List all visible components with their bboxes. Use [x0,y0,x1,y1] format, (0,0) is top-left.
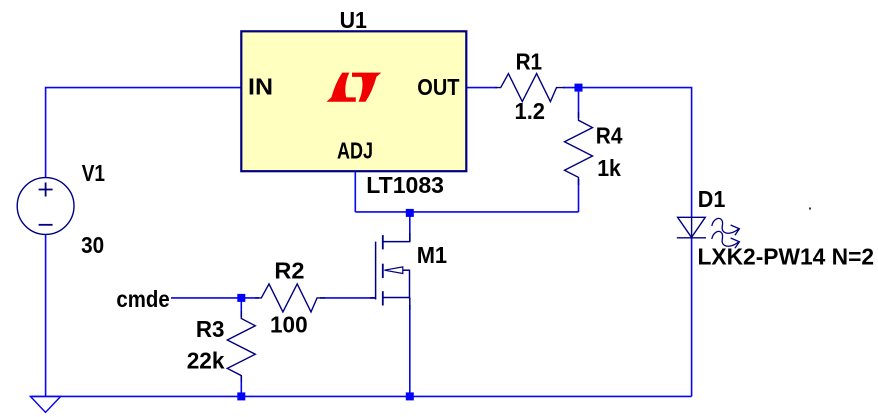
resistor R2 [255,284,325,312]
svg-text:22k: 22k [187,348,226,374]
resistor R3 [227,311,255,382]
svg-text:V1: V1 [82,160,105,186]
wire OUT to R1 [466,87,497,89]
value 30 [81,232,104,258]
node junction R1/R4 [575,84,583,92]
value 100 [270,312,308,338]
label M1 [417,242,447,268]
wire ADJ horizontal [355,211,578,213]
ground [30,396,60,412]
transistor M1 [370,233,411,310]
wire R1 to top-right corner and down to D1 [563,88,692,218]
value label LT1083 [366,172,444,198]
svg-text:LT1083: LT1083 [366,172,444,198]
svg-text:M1: M1 [417,242,447,268]
svg-text:100: 100 [270,312,308,338]
wire junction to R2 [241,297,259,299]
label R2 [274,257,304,283]
wire V1 bottom to ground rail [45,234,47,396]
pin label ADJ [337,138,373,164]
label R3 [196,316,225,342]
label R4 [596,123,623,149]
wire R3 bottom lead [240,376,242,396]
wire D1 cathode to ground rail [691,238,693,397]
voltage source V1 [17,178,74,235]
svg-text:30: 30 [81,232,104,258]
value LXK2-PW14 N=2 [698,244,875,270]
wire M1 drain to junction [409,213,411,242]
svg-text:R1: R1 [516,48,543,74]
wire R4 bottom lead to ADJ line [578,179,580,212]
wire cmde to junction [171,297,241,299]
stray dot [809,208,811,210]
node junction M1 source/ground rail [406,392,414,400]
resistor R1 [495,74,564,102]
svg-text:U1: U1 [340,7,367,33]
wire M1 source to ground rail [409,305,411,396]
value 1.2 [515,98,546,124]
LT logo [327,73,382,102]
svg-text:R4: R4 [596,123,623,149]
wire R4 top lead [578,88,580,118]
value 22k [187,348,226,374]
label D1 [698,186,726,212]
resistor R4 [565,112,593,185]
wire ground rail [30,395,691,397]
svg-text:R3: R3 [196,316,225,342]
node junction ADJ/M1 [406,209,414,217]
pin label IN [248,74,273,100]
value 1k [597,155,622,181]
svg-text:1k: 1k [597,155,622,181]
svg-text:LXK2-PW14 N=2: LXK2-PW14 N=2 [698,244,875,270]
wire R3 top lead [240,298,242,317]
node cmde [116,286,169,312]
label R1 [516,48,543,74]
svg-text:OUT: OUT [417,74,460,100]
node junction R3/ground rail [237,392,245,400]
svg-text:1.2: 1.2 [515,98,546,124]
svg-text:ADJ: ADJ [337,138,373,164]
svg-text:R2: R2 [274,257,304,283]
label V1 [82,160,105,186]
wire R2 to M1 gate [320,297,376,299]
pin label OUT [417,74,460,100]
svg-text:D1: D1 [698,186,726,212]
wire top-left from V1 to IN [46,88,242,178]
diode D1 LED [677,217,740,248]
svg-text:IN: IN [248,74,273,100]
node junction cmde/R2/R3 [237,294,245,302]
regulator U1 LT1083 body [241,31,466,171]
label U1 [340,7,367,33]
wire ADJ pin down [354,171,356,212]
svg-text:cmde: cmde [116,286,169,312]
